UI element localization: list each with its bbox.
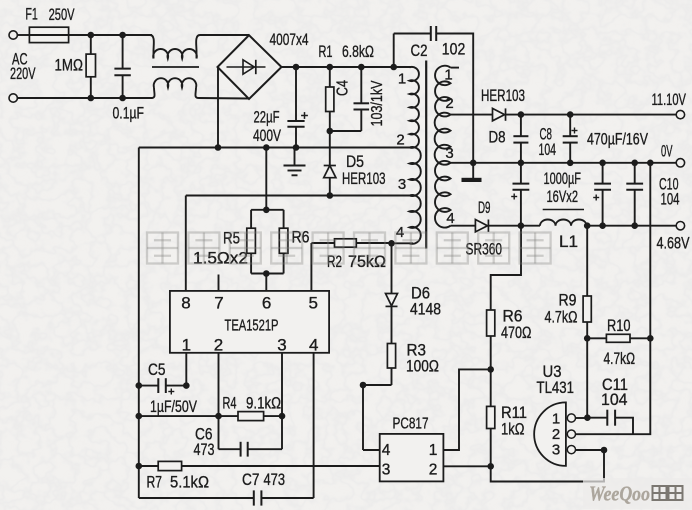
svg-text:C7: C7 xyxy=(242,471,260,489)
svg-text:F1: F1 xyxy=(25,6,38,24)
svg-text:400V: 400V xyxy=(253,127,281,145)
svg-text:2: 2 xyxy=(214,336,223,355)
svg-text:TEA1521P: TEA1521P xyxy=(225,318,279,335)
svg-text:5.1kΩ: 5.1kΩ xyxy=(170,474,209,492)
svg-text:R6: R6 xyxy=(292,229,310,247)
svg-text:D9: D9 xyxy=(478,199,491,217)
svg-text:250V: 250V xyxy=(49,6,75,24)
svg-text:1: 1 xyxy=(429,442,438,459)
svg-text:6.8kΩ: 6.8kΩ xyxy=(342,43,374,61)
svg-text:R1: R1 xyxy=(319,43,333,61)
svg-text:4: 4 xyxy=(309,336,318,355)
svg-text:C5: C5 xyxy=(148,361,166,379)
svg-text:1: 1 xyxy=(444,67,452,84)
svg-text:104: 104 xyxy=(539,141,557,159)
svg-text:8: 8 xyxy=(181,294,190,313)
svg-text:4.7kΩ: 4.7kΩ xyxy=(604,350,636,368)
svg-text:2: 2 xyxy=(552,426,560,443)
svg-text:3: 3 xyxy=(277,336,286,355)
svg-text:1: 1 xyxy=(182,336,191,355)
svg-text:4007x4: 4007x4 xyxy=(270,31,309,49)
svg-text:HER103: HER103 xyxy=(342,170,386,188)
svg-text:2: 2 xyxy=(396,132,404,149)
svg-text:3: 3 xyxy=(552,442,560,459)
svg-text:1kΩ: 1kΩ xyxy=(501,421,525,439)
svg-text:470Ω: 470Ω xyxy=(501,324,532,342)
svg-text:4: 4 xyxy=(446,210,454,227)
svg-text:HER103: HER103 xyxy=(481,87,525,105)
svg-text:1: 1 xyxy=(398,71,406,88)
svg-text:PC817: PC817 xyxy=(393,416,429,433)
svg-text:11.10V: 11.10V xyxy=(652,91,687,109)
svg-text:R10: R10 xyxy=(607,317,631,335)
svg-text:1MΩ: 1MΩ xyxy=(55,57,84,75)
svg-text:0.1µF: 0.1µF xyxy=(113,105,145,123)
svg-text:473: 473 xyxy=(194,441,215,459)
svg-text:102: 102 xyxy=(442,41,466,59)
svg-text:4148: 4148 xyxy=(410,301,441,319)
svg-text:D8: D8 xyxy=(489,129,506,147)
svg-text:3: 3 xyxy=(382,462,391,479)
svg-text:0V: 0V xyxy=(661,143,673,161)
svg-text:104: 104 xyxy=(661,191,680,209)
svg-text:100Ω: 100Ω xyxy=(406,358,439,376)
svg-text:C2: C2 xyxy=(411,42,428,60)
svg-text:22µF: 22µF xyxy=(254,109,280,127)
svg-text:103/1kV: 103/1kV xyxy=(369,80,386,126)
svg-text:16Vx2: 16Vx2 xyxy=(547,188,579,206)
svg-text:L1: L1 xyxy=(559,233,578,251)
svg-text:5: 5 xyxy=(308,294,317,313)
svg-text:9.1kΩ: 9.1kΩ xyxy=(246,395,281,413)
svg-text:R7: R7 xyxy=(147,474,163,492)
svg-text:4.7kΩ: 4.7kΩ xyxy=(545,309,578,327)
svg-text:4.68V: 4.68V xyxy=(657,235,690,253)
svg-text:1µF/50V: 1µF/50V xyxy=(150,398,197,416)
svg-text:473: 473 xyxy=(264,471,286,489)
svg-text:1000µF: 1000µF xyxy=(544,170,582,188)
svg-text:2: 2 xyxy=(429,462,438,479)
svg-text:220V: 220V xyxy=(10,65,36,83)
svg-text:4: 4 xyxy=(382,442,391,459)
svg-text:C4: C4 xyxy=(335,80,352,96)
svg-text:3: 3 xyxy=(398,176,406,193)
svg-text:6: 6 xyxy=(262,294,271,313)
svg-text:WeeQoo: WeeQoo xyxy=(589,482,650,506)
svg-text:D5: D5 xyxy=(346,153,364,171)
svg-text:R9: R9 xyxy=(559,292,577,310)
svg-text:1: 1 xyxy=(552,411,560,428)
svg-text:R6: R6 xyxy=(503,308,523,326)
svg-text:104: 104 xyxy=(601,391,628,409)
svg-text:R4: R4 xyxy=(223,395,237,413)
svg-text:470µF/16V: 470µF/16V xyxy=(587,131,648,149)
svg-text:2: 2 xyxy=(445,95,453,112)
svg-text:3: 3 xyxy=(445,145,453,162)
svg-text:7: 7 xyxy=(214,294,223,313)
svg-text:R11: R11 xyxy=(501,404,527,422)
svg-text:TL431: TL431 xyxy=(537,379,575,397)
